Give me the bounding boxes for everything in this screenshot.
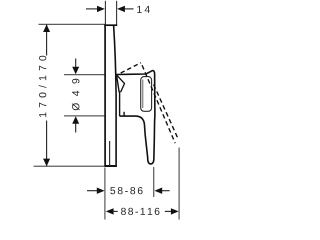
label 170/170 xyxy=(39,56,47,117)
dashed lever raised position: left edge xyxy=(141,63,175,144)
wall extension line below plate xyxy=(104,168,106,220)
dimension 170/170: dimension line lower segment xyxy=(46,121,48,167)
grip inner face rounded rectangle xyxy=(141,77,152,112)
dimension diameter 49: lower extension line xyxy=(64,115,105,117)
dimension 170/170: top arrowhead xyxy=(43,24,50,32)
escutcheon plate top edge xyxy=(104,24,117,26)
label 88-116 xyxy=(121,208,159,215)
escutcheon plate bottom edge xyxy=(104,165,117,167)
dashed tip extension line xyxy=(178,148,180,220)
sleeve small stub xyxy=(123,112,125,117)
handle tip extension line xyxy=(153,167,155,197)
dimension diameter 49: upper extension line xyxy=(64,74,105,76)
label 14 xyxy=(137,6,150,13)
dimension diameter 49: upper arrow xyxy=(75,59,77,68)
dimension 14: right arrow xyxy=(123,8,134,10)
label 58-86 xyxy=(110,187,142,194)
dimension 58-86: left arrow xyxy=(87,190,99,192)
label diameter 49 xyxy=(72,79,80,111)
dimension 14: right extension line xyxy=(116,1,118,26)
dashed lever raised position: top edge xyxy=(121,63,141,73)
escutcheon plate inner bottom line xyxy=(109,141,111,166)
dimension diameter 49: lower arrow xyxy=(75,124,77,133)
dimension 170/170: bottom extension line xyxy=(34,165,105,167)
dimension 170/170: top extension line xyxy=(39,23,106,25)
escutcheon plate left edge xyxy=(104,24,106,166)
escutcheon plate right edge xyxy=(114,25,117,165)
dimension 170/170: bottom arrowhead xyxy=(43,159,50,167)
lever top edge and grip outer contour xyxy=(116,71,155,164)
dimension 14: left extension line xyxy=(104,1,106,25)
dimension 88-116: left arrow xyxy=(106,208,114,214)
lever neck wedge line a xyxy=(117,76,120,92)
lever neck wedge line b xyxy=(117,75,125,92)
dimension 88-116: right arrow xyxy=(165,210,173,212)
dimension 58-86: right arrow xyxy=(154,188,162,194)
dimension 170/170: dimension line upper segment xyxy=(46,24,48,55)
dashed lever raised position: right edge xyxy=(154,85,179,140)
dimension 14: left arrow xyxy=(86,8,99,10)
cartridge sleeve front edge xyxy=(119,91,121,116)
grip inner contour line xyxy=(142,80,144,109)
